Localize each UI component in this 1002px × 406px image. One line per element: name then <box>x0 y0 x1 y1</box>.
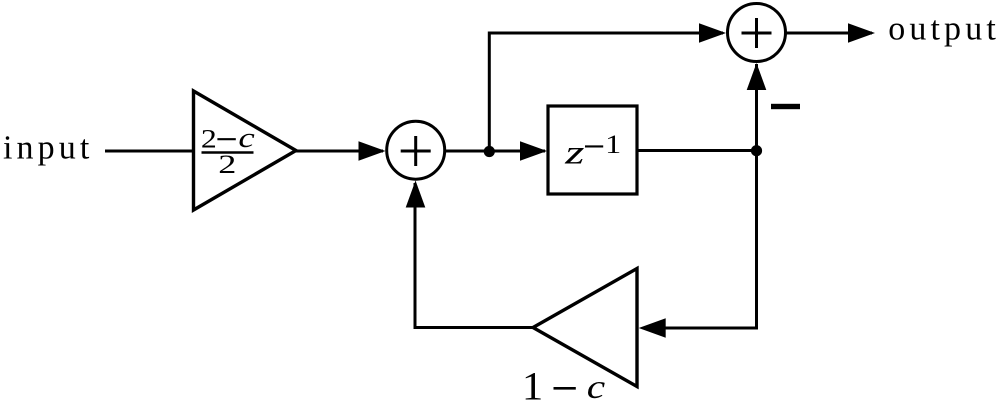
wire gain to summer S1 <box>296 150 383 153</box>
wire summer S1 to delay box <box>445 150 545 153</box>
wire input to gain triangle <box>105 150 194 153</box>
gain block A1 (2-c)/2 triangle <box>194 91 297 210</box>
minus sign label on S2 lower input <box>771 104 800 109</box>
summer S2 plus sign <box>742 18 772 48</box>
svg-text:2: 2 <box>218 150 236 179</box>
wire J2 down and left to feedback gain <box>662 151 757 329</box>
value label minus <box>554 387 576 390</box>
arrowhead into summer S1 from below <box>406 181 426 208</box>
wire summer S2 to output <box>786 32 873 35</box>
feedback gain block A2 (1-c) triangle <box>533 269 637 387</box>
value label numerator minus <box>217 138 235 140</box>
wire feedback gain to summer S1 <box>415 183 533 328</box>
wire delay box to node J2 <box>637 149 757 152</box>
summer S1 circle <box>387 121 445 179</box>
arrowhead into summer S2 from left <box>699 23 726 43</box>
summer S1 plus sign <box>401 136 431 166</box>
svg-text:2: 2 <box>201 124 217 153</box>
arrowhead into delay box <box>520 141 547 161</box>
delay block z^-1 box <box>548 106 637 194</box>
svg-text:input: input <box>3 130 93 167</box>
node junction J1 dot <box>484 146 495 157</box>
svg-text:1: 1 <box>605 130 621 159</box>
arrowhead into summer S1 <box>359 141 386 161</box>
arrowhead output <box>848 23 875 43</box>
value label fraction bar <box>202 151 254 153</box>
wire J2 up to summer S2 <box>755 64 758 151</box>
wire J1 up to top feed-forward <box>489 33 723 151</box>
svg-text:z: z <box>564 135 585 172</box>
summer S2 circle <box>728 4 786 62</box>
svg-text:c: c <box>238 123 255 154</box>
arrowhead into feedback gain <box>639 318 666 338</box>
node junction J2 dot <box>751 145 762 156</box>
delay label exponent minus <box>585 145 603 147</box>
svg-text:output: output <box>888 11 1000 48</box>
svg-text:1: 1 <box>522 364 543 406</box>
svg-text:c: c <box>587 369 605 406</box>
arrowhead into summer S2 from below <box>747 63 767 90</box>
